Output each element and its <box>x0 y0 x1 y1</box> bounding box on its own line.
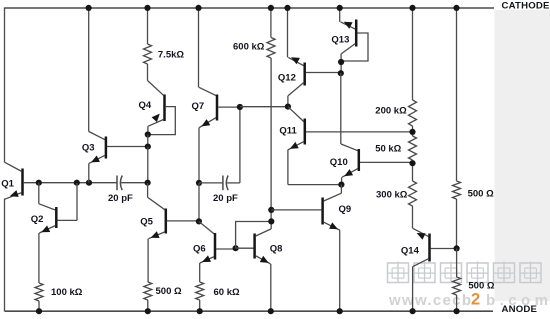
transistor Q10 <box>341 144 413 185</box>
svg-text:Q9: Q9 <box>339 204 352 215</box>
svg-text:Q1: Q1 <box>1 178 14 189</box>
transistor Q5 <box>148 183 199 282</box>
decor-free: right margin strip (watermark background) <box>495 10 550 301</box>
svg-text:CATHODE: CATHODE <box>502 0 550 11</box>
wire: lower 500 to anode rail <box>456 295 458 312</box>
label Q9 <box>339 204 352 215</box>
wire: 50k to 300k <box>412 160 414 181</box>
node: junction Q10 emitter / Q9 collector / Q11 emitter <box>338 182 344 188</box>
svg-text:Q12: Q12 <box>278 72 296 83</box>
node: junction Q10 base / 50k-300k <box>409 160 415 166</box>
node: junction C1 / Q5 collector <box>145 180 151 186</box>
label Q14 <box>401 245 420 256</box>
label 300 kOhm <box>376 190 408 201</box>
node: Q3 base junction <box>145 144 151 150</box>
node: anode rail junctions <box>36 308 460 314</box>
wire: Q14 base node to lower 500 resistor <box>456 249 458 278</box>
transistor Q9 <box>271 185 341 312</box>
node: junction Q14 base / 500-500 <box>454 245 460 251</box>
svg-text:Q6: Q6 <box>193 244 206 255</box>
transistor Q3 <box>89 7 148 182</box>
wire: 200k to 50k <box>412 126 414 136</box>
resistor 200k <box>409 100 417 126</box>
resistor 600k <box>267 38 275 59</box>
wire: cathode top rail <box>5 7 494 9</box>
node: junction Q12 base on Q13 column <box>338 70 344 76</box>
svg-text:60 kΩ: 60 kΩ <box>214 287 240 298</box>
label 20 pF (C1) <box>108 193 133 204</box>
node: junction Q5 base / Q6 collector / Q7 emitter <box>196 218 202 224</box>
svg-text:Q11: Q11 <box>279 126 297 137</box>
wire: 300k down to Q14 emitter <box>412 206 414 228</box>
svg-text:Q4: Q4 <box>139 100 152 111</box>
label Q12 <box>278 72 296 83</box>
label 500 Ohm (lower right) <box>468 280 494 291</box>
wire: Q7 emitter node down to Q5 base node <box>198 183 200 222</box>
wire: Q13 column down to Q10 collector <box>340 73 342 144</box>
label Q11 <box>279 126 297 137</box>
label Q13 <box>331 34 349 45</box>
label 200 kOhm <box>375 105 407 116</box>
transistor Q12 <box>288 57 341 106</box>
svg-text:2: 2 <box>471 291 480 309</box>
wire: Q4 junction down to Q3 base node <box>147 135 149 147</box>
transistor Q1 <box>5 162 23 199</box>
wire: Q3 base node down to compensation node <box>147 147 149 183</box>
svg-text:7.5kΩ: 7.5kΩ <box>158 50 184 61</box>
transistor Q7 <box>199 87 240 183</box>
label Q10 <box>330 157 348 168</box>
resistor 7.5k <box>144 44 152 64</box>
transistor Q6 <box>199 222 236 283</box>
wire: left rail upper segment (Q1 collector to cathode rail) <box>4 7 6 162</box>
label Q1 <box>1 178 14 189</box>
svg-text:Q10: Q10 <box>330 157 348 168</box>
capacitor C1 20 pF <box>117 176 148 191</box>
label 100 kOhm <box>51 287 83 298</box>
node: junction Q8 collector/base loop on 600k column <box>268 218 274 224</box>
node: junction Q9 base tap on 600k column <box>268 207 274 213</box>
node: junction Q7 emitter / C2 / Q5 base column <box>196 180 202 186</box>
wire: cathode rail to Q7 collector <box>198 7 200 87</box>
node: junction Q6 base / Q8 base <box>233 245 239 251</box>
svg-text:200 kΩ: 200 kΩ <box>375 105 407 116</box>
label Q4 <box>139 100 152 111</box>
wire: cathode rail to upper 500 resistor <box>456 7 458 181</box>
transistor Q14 <box>413 228 457 311</box>
node: junction Q2 collector on base row <box>36 180 42 186</box>
resistor 50k <box>409 136 417 160</box>
svg-text:www.cecb: www.cecb <box>388 292 471 309</box>
node: CATHODE terminal label <box>502 0 550 11</box>
svg-text:Q2: Q2 <box>31 214 44 225</box>
node: junction Q11 base / 200k-50k <box>409 129 415 135</box>
capacitor C2 20 pF with riser to Q7 base <box>199 107 240 190</box>
wire: cathode rail to 600k resistor <box>270 7 272 37</box>
svg-text:500 Ω: 500 Ω <box>468 188 494 199</box>
label Q7 <box>192 101 205 112</box>
node: junction Q11/Q12 collectors <box>285 104 291 110</box>
svg-text:Q8: Q8 <box>270 244 283 255</box>
wire: anode bottom rail <box>5 310 493 312</box>
transistor Q13 (diode-connected) <box>341 20 368 74</box>
label 50 kOhm <box>375 144 401 155</box>
label 500 Ohm (upper right) <box>468 188 494 199</box>
label 60 kOhm <box>214 287 240 298</box>
label Q3 <box>82 142 95 153</box>
svg-text:500 Ω: 500 Ω <box>468 280 494 291</box>
node: junction Q3 emitter on base row <box>86 180 92 186</box>
wire: Q7 base row to Q11/Q12 collector node <box>240 106 288 108</box>
wire: Q1 base to ref node row (y=183) <box>24 182 117 184</box>
wire: cathode rail to 200k resistor <box>412 7 414 100</box>
label 600 kOhm <box>233 42 265 53</box>
label 7.5 kOhm <box>158 50 184 61</box>
label Q5 <box>140 217 153 228</box>
transistor Q8 (diode-connected) <box>236 222 272 312</box>
svg-text:Q3: Q3 <box>82 142 95 153</box>
label Q2 <box>31 214 44 225</box>
node: Q13 collector/base junction <box>338 59 344 65</box>
label 20 pF (C2) <box>213 193 238 204</box>
wire: left rail lower segment (Q1 emitter to anode rail) <box>4 199 6 312</box>
transistor Q11 <box>288 107 413 185</box>
svg-text:20 pF: 20 pF <box>108 193 133 204</box>
transistor Q2 <box>39 183 77 283</box>
wire: upper 500 to Q14 base node <box>456 199 458 249</box>
node: cathode rail junctions <box>86 5 460 11</box>
resistor 500 lower right <box>453 277 461 295</box>
wire: 600k down to Q8 collector node <box>270 58 272 222</box>
svg-text:Q5: Q5 <box>140 217 153 228</box>
watermark line 2 (site url) <box>388 291 548 310</box>
label Q6 <box>193 244 206 255</box>
svg-text:300 kΩ: 300 kΩ <box>376 190 408 201</box>
resistor 60k (Q6 emitter to anode) <box>196 282 204 312</box>
wire: cathode rail to Q13 emitter <box>339 7 341 22</box>
resistor 500 upper right <box>453 181 461 199</box>
wire: cathode rail to 7.5k resistor <box>147 7 149 44</box>
resistor 300k <box>409 181 417 206</box>
label 500 Ohm (left) <box>156 286 182 297</box>
svg-text:600 kΩ: 600 kΩ <box>233 42 265 53</box>
resistor 500 (Q5 emitter to anode) <box>144 282 152 312</box>
resistor 100k (Q2 emitter to anode) <box>35 283 43 312</box>
svg-text:Q14: Q14 <box>401 245 420 256</box>
svg-text:20 pF: 20 pF <box>213 193 238 204</box>
svg-text:500 Ω: 500 Ω <box>156 286 182 297</box>
node: junction Q2 base riser on base row <box>74 180 80 186</box>
transistor Q4 (diode-connected) <box>148 81 176 135</box>
label Q8 <box>270 244 283 255</box>
wire: cathode rail to Q12 emitter <box>287 7 289 57</box>
svg-text:Q7: Q7 <box>192 101 205 112</box>
svg-text:ANODE: ANODE <box>502 304 538 315</box>
watermark line 1 (site name glyphs) <box>388 262 542 283</box>
svg-text:Q13: Q13 <box>331 34 349 45</box>
wire: 7.5k to Q4 collector <box>147 64 149 81</box>
node: ANODE terminal label <box>502 304 538 315</box>
svg-text:100 kΩ: 100 kΩ <box>51 287 83 298</box>
node: Q4 emitter/base junction <box>145 131 151 137</box>
node: junction Q7 base / input mirror row <box>237 104 243 110</box>
svg-text:50 kΩ: 50 kΩ <box>375 144 401 155</box>
